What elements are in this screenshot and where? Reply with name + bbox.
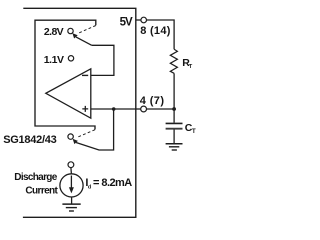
svg-text:T: T <box>189 64 193 70</box>
wire: top switch wiper arm <box>76 37 92 45</box>
wire: pin 4 terminal to RT/CT junction <box>147 108 175 110</box>
plus sign (non-inverting input label) <box>82 106 88 112</box>
node SG1842/43 terminal circle <box>68 134 73 139</box>
ground (below current source) <box>62 203 80 205</box>
op-amp U1 (comparator, pointing left) <box>46 69 91 118</box>
svg-text:Discharge: Discharge <box>14 172 57 183</box>
node 1.1V terminal circle <box>68 56 73 61</box>
svg-text:4 (7): 4 (7) <box>140 95 165 107</box>
wire: RT bottom to junction node <box>173 73 175 109</box>
svg-text:d: d <box>88 184 91 190</box>
wire: dashed throw from inner block to SG1842/43 terminal <box>77 130 95 138</box>
svg-text:5V: 5V <box>120 16 133 28</box>
svg-text:SG1842/43: SG1842/43 <box>3 134 57 146</box>
wire: 5V terminal to top of RT <box>147 20 175 49</box>
svg-text:1.1V: 1.1V <box>44 54 64 66</box>
ground (below CT) <box>166 143 183 145</box>
wire: dashed throw from inner block to 2.8V terminal <box>78 26 96 34</box>
inner block outline with switch step corners <box>35 20 96 129</box>
capacitor C_T top plate <box>166 122 183 124</box>
minus sign (inverting input label) <box>82 74 88 76</box>
arrowhead of top switch wiper at 2.8V terminal <box>72 33 77 38</box>
wire: CT bottom to ground <box>173 130 175 144</box>
wire: pin 4 from box edge to terminal <box>136 108 141 110</box>
arrowhead of current source arrow <box>69 187 74 193</box>
svg-text:Current: Current <box>25 186 58 197</box>
capacitor C_T bottom plate <box>166 128 183 130</box>
wire: current source to ground <box>71 197 73 204</box>
junction node at lower switch / pin4 rail <box>112 107 116 111</box>
node 2.8V terminal circle <box>68 28 73 33</box>
svg-text:= 8.2mA: = 8.2mA <box>93 177 132 189</box>
junction node at RT/CT/pin4 <box>172 107 176 111</box>
arrowhead of lower switch wiper at SG1842/43 terminal <box>73 139 78 144</box>
node 5V terminal circle <box>141 17 147 23</box>
svg-text:T: T <box>192 129 196 135</box>
svg-text:2.8V: 2.8V <box>44 26 64 38</box>
wire: junction down to CT top plate <box>173 109 175 123</box>
wire: discharge terminal to current source <box>70 168 73 174</box>
node discharge terminal circle <box>68 162 74 168</box>
wire: pin 8 from box edge to 5V terminal <box>136 19 141 21</box>
current source I_d circle <box>60 174 83 197</box>
wire: lower switch wiper arm to junction on pin4 rail <box>76 109 114 150</box>
current source arrow shaft (downward) <box>70 176 72 189</box>
wire: non-inverting input to box edge (pin 4 rail) <box>91 108 136 110</box>
resistor R_T zigzag <box>170 49 177 73</box>
node pin 4 (7) terminal circle <box>141 106 147 112</box>
wire: inverting input Z-route to top switch elbow <box>91 45 114 75</box>
IC outline (partial box, open left side) <box>23 8 136 217</box>
svg-text:8 (14): 8 (14) <box>140 25 171 37</box>
